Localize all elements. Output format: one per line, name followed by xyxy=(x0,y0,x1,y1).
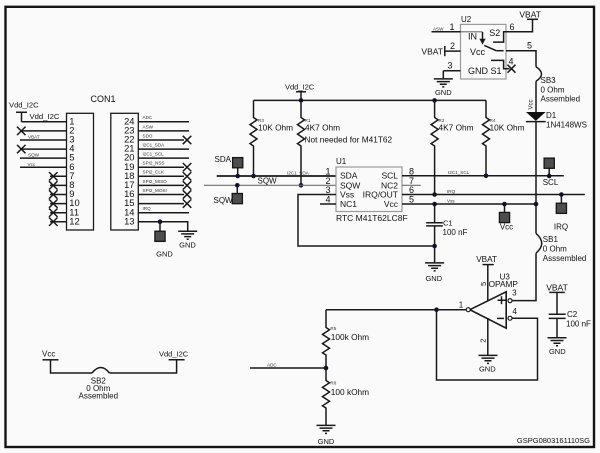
wire SQW line xyxy=(204,184,336,186)
U2 S2 contact to pin6 xyxy=(493,32,506,42)
svg-text:VBAT: VBAT xyxy=(546,283,568,293)
wire Vss line (U1 pin5) xyxy=(402,203,536,205)
svg-text:100k Ohm: 100k Ohm xyxy=(331,332,369,342)
svg-text:Vdd_I2C: Vdd_I2C xyxy=(159,349,189,358)
wire ADC xyxy=(250,367,326,369)
wire CON1 pin18 SPI2_CLK xyxy=(138,175,184,177)
junction rail/R1 xyxy=(299,98,304,103)
junction U3 output / feedback xyxy=(434,307,439,312)
svg-text:10K Ohm: 10K Ohm xyxy=(490,123,525,133)
pad SDA xyxy=(233,158,243,168)
wire U3 pin5 V+ xyxy=(487,265,489,301)
wire C1 to ground xyxy=(434,246,436,263)
svg-text:3: 3 xyxy=(447,61,452,71)
U2 S1 contact to pin4 xyxy=(491,60,506,68)
svg-text:CON1: CON1 xyxy=(90,94,115,104)
svg-text:SDO: SDO xyxy=(143,133,153,138)
svg-text:SPI2_NSS: SPI2_NSS xyxy=(143,161,165,166)
svg-text:5: 5 xyxy=(527,40,532,50)
U2 pin5 contact xyxy=(496,50,503,52)
svg-text:R5: R5 xyxy=(330,326,336,331)
svg-text:Vcc: Vcc xyxy=(470,47,486,57)
wire U2 pin5 to SB3 xyxy=(506,51,536,67)
junction Vss line end / D1 column xyxy=(534,202,539,207)
svg-text:IRQ: IRQ xyxy=(554,222,568,231)
svg-text:13: 13 xyxy=(124,215,134,226)
svg-text:RTC M41T62LC8F: RTC M41T62LC8F xyxy=(336,213,408,223)
svg-text:0 Ohm: 0 Ohm xyxy=(541,85,565,94)
wire stub U2 pin4 with X xyxy=(506,68,510,70)
capacitor C2 xyxy=(549,292,591,337)
svg-text:4: 4 xyxy=(512,307,517,316)
pin numbers CON1 left 1-12 xyxy=(69,115,79,226)
wire stub U1 pin7 NC2 xyxy=(402,184,421,186)
svg-text:C1: C1 xyxy=(443,219,453,228)
svg-text:U1: U1 xyxy=(336,157,347,166)
wire stub SCL pad xyxy=(548,168,550,177)
U2 IN line (internal) xyxy=(461,31,483,33)
wire CON1 pin22 SDO xyxy=(138,139,184,141)
wire CON1 pin21 I2C1_SDA xyxy=(138,148,189,150)
svg-text:ADC: ADC xyxy=(143,115,153,120)
svg-text:Vcc: Vcc xyxy=(529,99,535,109)
svg-text:3: 3 xyxy=(325,185,330,195)
wire U2 pin1 ASW xyxy=(432,31,461,33)
wire CON1 pin6 Vcc xyxy=(20,166,67,168)
pin numbers CON1 right 24-13 xyxy=(124,115,134,226)
op-amp U3 triangle xyxy=(470,292,506,328)
svg-text:I2C1_SCL: I2C1_SCL xyxy=(143,152,165,157)
ground symbol below C2 xyxy=(548,338,567,346)
wire CON1 pin23 ASW xyxy=(138,130,189,132)
wire D1 cathode down across SCL and IRQ to Vss node xyxy=(535,122,537,234)
svg-text:VBAT: VBAT xyxy=(28,135,40,140)
wire U2 pin6 to VBAT xyxy=(506,19,533,32)
svg-text:GND: GND xyxy=(435,88,452,97)
power symbol VBAT (above C2) xyxy=(546,283,568,293)
wire CON1 pin5 SQW xyxy=(20,157,67,159)
junction R2/IRQ line xyxy=(432,192,437,197)
svg-text:6: 6 xyxy=(509,22,514,32)
pad IRQ xyxy=(556,203,566,213)
svg-text:4: 4 xyxy=(508,57,513,67)
U2 switch arrow xyxy=(479,32,496,51)
junction R4/SCL line xyxy=(484,174,489,179)
power symbol Vdd_I2C (bottom) xyxy=(159,349,189,359)
junction IRQ pad/line xyxy=(559,192,564,197)
junction C1 bottom / Vss loop xyxy=(432,244,437,249)
svg-text:Vss: Vss xyxy=(340,190,354,200)
svg-text:8: 8 xyxy=(409,166,414,176)
svg-text:Asssembled: Asssembled xyxy=(543,254,587,263)
svg-text:12: 12 xyxy=(69,215,79,226)
wire CON1 pin3 VBAT xyxy=(20,139,67,141)
IC U1 body xyxy=(336,167,402,212)
switch U2 body xyxy=(461,24,507,79)
svg-text:GND: GND xyxy=(156,250,173,259)
svg-text:Vcc: Vcc xyxy=(384,199,399,209)
U1 pin numbers right xyxy=(409,166,414,204)
VBAT tap symbol (pin2) xyxy=(444,46,446,56)
wire CON1 pin14 IRQ xyxy=(138,212,189,214)
wire stub SQW pad xyxy=(236,185,238,194)
pad SQW xyxy=(232,194,242,204)
junction rail/R2 xyxy=(432,98,437,103)
ground symbol below C1 xyxy=(425,263,444,271)
svg-text:I2C1_SDA: I2C1_SDA xyxy=(287,170,310,175)
pad Vcc xyxy=(499,212,509,222)
junction SDA pad/bus xyxy=(235,174,240,179)
svg-text:I2C1_SDA: I2C1_SDA xyxy=(143,143,166,148)
svg-text:Vdd_I2C: Vdd_I2C xyxy=(30,112,60,121)
svg-text:GND: GND xyxy=(479,364,496,373)
power symbol Vdd_I2C (above pull-up rail) xyxy=(285,82,315,100)
svg-text:S2: S2 xyxy=(489,28,500,38)
U3 pin1 bubble xyxy=(466,308,470,312)
wire CON1 pin19 SPI2_NSS xyxy=(138,166,184,168)
svg-text:VBAT: VBAT xyxy=(421,46,443,56)
svg-text:Vdd_I2C: Vdd_I2C xyxy=(9,101,39,110)
power symbol VBAT (above U3) xyxy=(476,255,497,265)
U3 minus input marker xyxy=(497,317,504,319)
wire stubs CON1 pins 7-12 with no-connect X xyxy=(49,172,67,226)
svg-text:Vcc: Vcc xyxy=(28,162,36,167)
junction C1 top / Vss line xyxy=(432,202,437,207)
svg-text:C2: C2 xyxy=(567,310,578,319)
wire stub pin13 pad xyxy=(159,222,161,232)
svg-text:IN: IN xyxy=(468,31,477,41)
svg-text:SQW: SQW xyxy=(258,177,278,186)
svg-text:GND: GND xyxy=(318,437,335,446)
svg-text:IRQ: IRQ xyxy=(143,206,152,211)
connector CON1 left body xyxy=(67,113,94,230)
svg-text:I2C1_SCL: I2C1_SCL xyxy=(448,170,470,175)
svg-text:2: 2 xyxy=(450,41,455,51)
junction pin13/pad xyxy=(158,219,163,224)
junction Vcc pad/Vss line xyxy=(502,202,507,207)
wire U2 pin3 to ground xyxy=(443,71,460,79)
svg-text:GND: GND xyxy=(549,347,566,356)
junction R1/SQW line xyxy=(299,183,304,188)
ground symbol at CON1 pin13 xyxy=(178,231,197,239)
svg-text:SB1: SB1 xyxy=(543,235,559,244)
svg-text:Not needed for M41T62: Not needed for M41T62 xyxy=(305,134,393,144)
svg-text:ADC: ADC xyxy=(267,362,277,367)
svg-text:1: 1 xyxy=(325,166,330,176)
resistor R3 xyxy=(250,100,293,176)
wire U3 output to R5 xyxy=(326,309,466,311)
wire feedback loop to U3 pin4 xyxy=(437,310,538,380)
wire CON1 pin24 ADC xyxy=(138,121,189,123)
wire CON1 pin13 to ground xyxy=(138,222,187,231)
solder bridge SB2 xyxy=(79,368,119,401)
wire SB1 to opamp pin3 xyxy=(512,253,536,300)
wire IRQ line (U1 pin6) xyxy=(402,194,585,196)
solder bridge SB1 xyxy=(536,233,586,263)
svg-text:100 kOhm: 100 kOhm xyxy=(331,387,369,397)
svg-text:GSPG0803161110SG: GSPG0803161110SG xyxy=(517,436,590,445)
svg-text:Vcc: Vcc xyxy=(42,349,55,358)
no-connect X pin4 xyxy=(17,145,26,153)
svg-text:ASW: ASW xyxy=(433,27,444,32)
svg-text:NC1: NC1 xyxy=(340,199,357,209)
svg-text:GND: GND xyxy=(425,274,442,283)
svg-text:VBAT: VBAT xyxy=(519,9,541,19)
wire stub SDA pad xyxy=(237,167,239,176)
ground symbol below R6 xyxy=(317,425,336,433)
power symbol Vdd_I2C (top-left) xyxy=(9,101,39,122)
wire U3 pin2 V- to ground xyxy=(487,318,489,355)
svg-text:2: 2 xyxy=(479,339,488,343)
svg-text:SPI2_MOSI: SPI2_MOSI xyxy=(143,188,167,193)
U1 pin names left xyxy=(340,171,360,210)
resistor R1 xyxy=(298,100,393,185)
svg-text:4K7 Ohm: 4K7 Ohm xyxy=(305,123,340,133)
ground symbol below U3 xyxy=(479,355,498,363)
svg-text:0 Ohm: 0 Ohm xyxy=(543,245,567,254)
svg-text:SB3: SB3 xyxy=(541,76,557,85)
svg-text:Vss: Vss xyxy=(447,198,455,203)
wire Vcc to SB2 xyxy=(51,360,93,373)
svg-text:5: 5 xyxy=(409,195,414,205)
wire SB2 to Vdd_I2C xyxy=(110,360,177,373)
svg-text:6: 6 xyxy=(409,185,414,195)
resistor R6 xyxy=(323,368,370,425)
wire SDA bus xyxy=(217,175,336,177)
svg-text:SQW: SQW xyxy=(214,196,234,205)
U1 pin numbers left xyxy=(325,166,330,204)
resistor R4 xyxy=(483,100,525,175)
svg-text:Vdd_I2C: Vdd_I2C xyxy=(285,82,315,91)
svg-text:SCL: SCL xyxy=(543,178,559,187)
resistor R5 xyxy=(323,310,370,368)
pad SCL xyxy=(544,158,554,168)
wire stub U1 pin4 NC1 xyxy=(320,203,336,205)
U1 pin names right xyxy=(363,171,399,210)
wire CON1 pin20 I2C1_SCL xyxy=(138,157,189,159)
svg-text:1N4148WS: 1N4148WS xyxy=(546,121,587,130)
no-connect X pin2 xyxy=(17,127,26,135)
svg-text:100 nF: 100 nF xyxy=(443,228,468,237)
wire SB3 to D1 xyxy=(535,81,537,112)
wire U2 pin2 VBAT xyxy=(445,50,461,52)
junction ADC/R5/R6 xyxy=(324,366,329,371)
svg-text:Assembled: Assembled xyxy=(79,392,119,401)
svg-text:D1: D1 xyxy=(546,111,557,120)
svg-text:3: 3 xyxy=(512,288,517,297)
wire CON1 pin17 SPI2_MISO xyxy=(138,184,184,186)
junction R3/SDA bus xyxy=(251,174,256,179)
wire stub Vcc pad xyxy=(504,204,506,213)
svg-text:GND S1: GND S1 xyxy=(468,66,502,76)
svg-text:5: 5 xyxy=(479,282,488,286)
wire CON1 pin2 (no connect) xyxy=(20,130,67,132)
solder bridge SB3 xyxy=(536,67,580,104)
ground symbol at U2 pin3 xyxy=(434,79,453,87)
wire U1 pin3 Vss loop xyxy=(298,195,435,247)
connector CON1 right body xyxy=(111,113,139,230)
svg-text:VBAT: VBAT xyxy=(476,255,497,264)
svg-text:SDA: SDA xyxy=(215,155,232,164)
junction SQW pad/line xyxy=(235,183,240,188)
svg-text:IRQ: IRQ xyxy=(447,189,456,194)
U3 pin3 bubble xyxy=(508,299,512,303)
svg-text:ASW: ASW xyxy=(143,124,154,129)
svg-text:10K Ohm: 10K Ohm xyxy=(258,123,293,133)
wire CON1 pin1 Vdd_I2C xyxy=(22,121,67,123)
svg-text:4: 4 xyxy=(325,195,330,205)
junction SCL pad/line xyxy=(547,174,552,179)
wire CON1 pin15 (no connect) xyxy=(138,203,184,205)
U3 plus input marker xyxy=(498,296,506,304)
svg-text:1: 1 xyxy=(459,301,464,310)
power symbol VBAT (top) xyxy=(519,9,541,19)
svg-text:GND: GND xyxy=(179,240,196,249)
pad GND (test point) at CON1 pin13 xyxy=(155,231,165,241)
svg-text:1: 1 xyxy=(449,22,454,32)
wire Vdd_I2C rail xyxy=(254,99,487,101)
diode D1 1N4148WS xyxy=(526,111,587,129)
wire SCL line (U1 pin8) xyxy=(402,175,564,177)
svg-text:SPI2_CLK: SPI2_CLK xyxy=(143,170,165,175)
svg-text:SQW: SQW xyxy=(28,153,40,158)
wire CON1 pin4 (no connect) xyxy=(20,148,67,150)
resistor R2 xyxy=(431,100,474,194)
capacitor C1 xyxy=(426,204,467,246)
power symbol Vcc (bottom-left) xyxy=(42,349,59,359)
no-connect X pin4 (U2) xyxy=(508,65,516,73)
wire CON1 pin16 SPI2_MOSI xyxy=(138,194,184,196)
svg-text:Vcc: Vcc xyxy=(500,222,513,231)
svg-text:SPI2_MISO: SPI2_MISO xyxy=(143,179,168,184)
svg-text:SCL: SCL xyxy=(381,171,398,181)
svg-text:R6: R6 xyxy=(330,380,336,385)
svg-text:U2: U2 xyxy=(461,15,472,24)
svg-text:Assembled: Assembled xyxy=(541,95,581,104)
svg-text:4K7 Ohm: 4K7 Ohm xyxy=(439,123,474,133)
svg-text:100 nF: 100 nF xyxy=(566,319,591,328)
U3 pin4 bubble xyxy=(508,316,512,320)
svg-text:SDA: SDA xyxy=(340,171,358,181)
svg-text:IRQ/OUT: IRQ/OUT xyxy=(363,190,398,200)
wire stub IRQ pad xyxy=(560,195,562,204)
